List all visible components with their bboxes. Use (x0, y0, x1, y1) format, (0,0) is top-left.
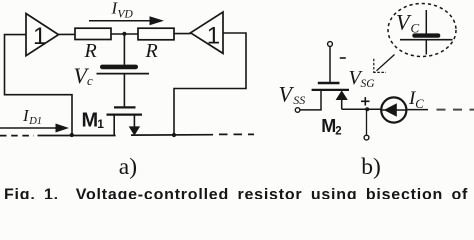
transistor M2 (312, 83, 349, 110)
wire: R2 to buffer U2 (174, 33, 191, 35)
label I_C (408, 88, 424, 111)
current source IC (381, 97, 406, 122)
pointer: inset to V_SG (373, 55, 394, 73)
wire: current source to right (solid then dashed) (406, 109, 428, 111)
wire: rail solid under M1 drain to right loop (131, 134, 213, 136)
wire: dashed rail left segment (0, 135, 34, 137)
wire: rail solid under M1 source (38, 135, 116, 137)
arrow I_D1 (0, 124, 69, 133)
svg-text:SS: SS (293, 93, 305, 107)
resistor R2 (138, 28, 174, 62)
transistor M1 (107, 107, 143, 135)
wire: M2 drain to current source (342, 108, 382, 110)
inset label V_C (396, 10, 420, 36)
svg-text:D1: D1 (28, 116, 42, 127)
svg-text:R: R (84, 40, 97, 62)
wire: capacitor to M1 gate (123, 74, 125, 107)
wire: R1 to R2 (111, 33, 138, 35)
svg-text:Fig. 1. Voltage-controlled re: Fig. 1. Voltage-controlled resistor usin… (4, 186, 468, 199)
terminal VSS (295, 108, 300, 113)
svg-text:2: 2 (335, 126, 341, 138)
terminal: bottom (364, 135, 369, 140)
current label I_D1 (22, 106, 42, 127)
label V_C (74, 63, 94, 88)
label V_SS (279, 82, 306, 108)
inset magnifier ellipse (zoom of VC) (388, 4, 456, 57)
plus sign (361, 97, 370, 105)
label V_SG (349, 67, 376, 90)
node: drain junction (365, 107, 369, 111)
wire: dashed rail right segment (219, 133, 254, 135)
label M2 (321, 116, 341, 138)
svg-text:b): b) (361, 154, 381, 180)
minus sign (340, 57, 346, 59)
current label I_VD (111, 0, 134, 21)
svg-text:VD: VD (118, 9, 134, 21)
svg-text:C: C (411, 21, 420, 36)
svg-text:SG: SG (361, 78, 376, 90)
svg-text:1: 1 (33, 23, 46, 50)
wire: midpoint down to capacitor (123, 34, 125, 65)
wire: left feedback loop (5, 35, 73, 136)
svg-text:M: M (82, 110, 99, 132)
label M1 (82, 110, 105, 132)
buffer U1 (left triangle, gain 1) (26, 14, 59, 56)
terminal: M2 gate top (328, 42, 333, 47)
capacitor VC (thick top plate) (97, 65, 150, 74)
svg-text:c: c (87, 73, 93, 88)
node: junction of loop and rail (70, 133, 74, 137)
svg-text:M: M (321, 116, 336, 136)
svg-text:1: 1 (97, 117, 104, 131)
node: right loop to rail (172, 133, 176, 137)
buffer U2 (right triangle, gain 1) (191, 12, 224, 53)
wire: gate terminal to M2 gate (329, 46, 331, 82)
wire: buffer U1 output to R1 (59, 33, 76, 35)
wire: M2 source to VSS terminal (300, 109, 322, 111)
svg-text:a): a) (119, 154, 137, 180)
resistor R1 (75, 28, 111, 62)
wire: right feedback loop (174, 33, 246, 135)
arrow I_VD direction (89, 16, 164, 25)
svg-text:1: 1 (207, 23, 220, 50)
svg-text:R: R (145, 40, 158, 62)
wire: junction down to bottom terminal (366, 109, 368, 135)
node: resistor midpoint (122, 32, 126, 36)
svg-text:C: C (415, 97, 424, 111)
inset capacitor VC (400, 10, 453, 55)
